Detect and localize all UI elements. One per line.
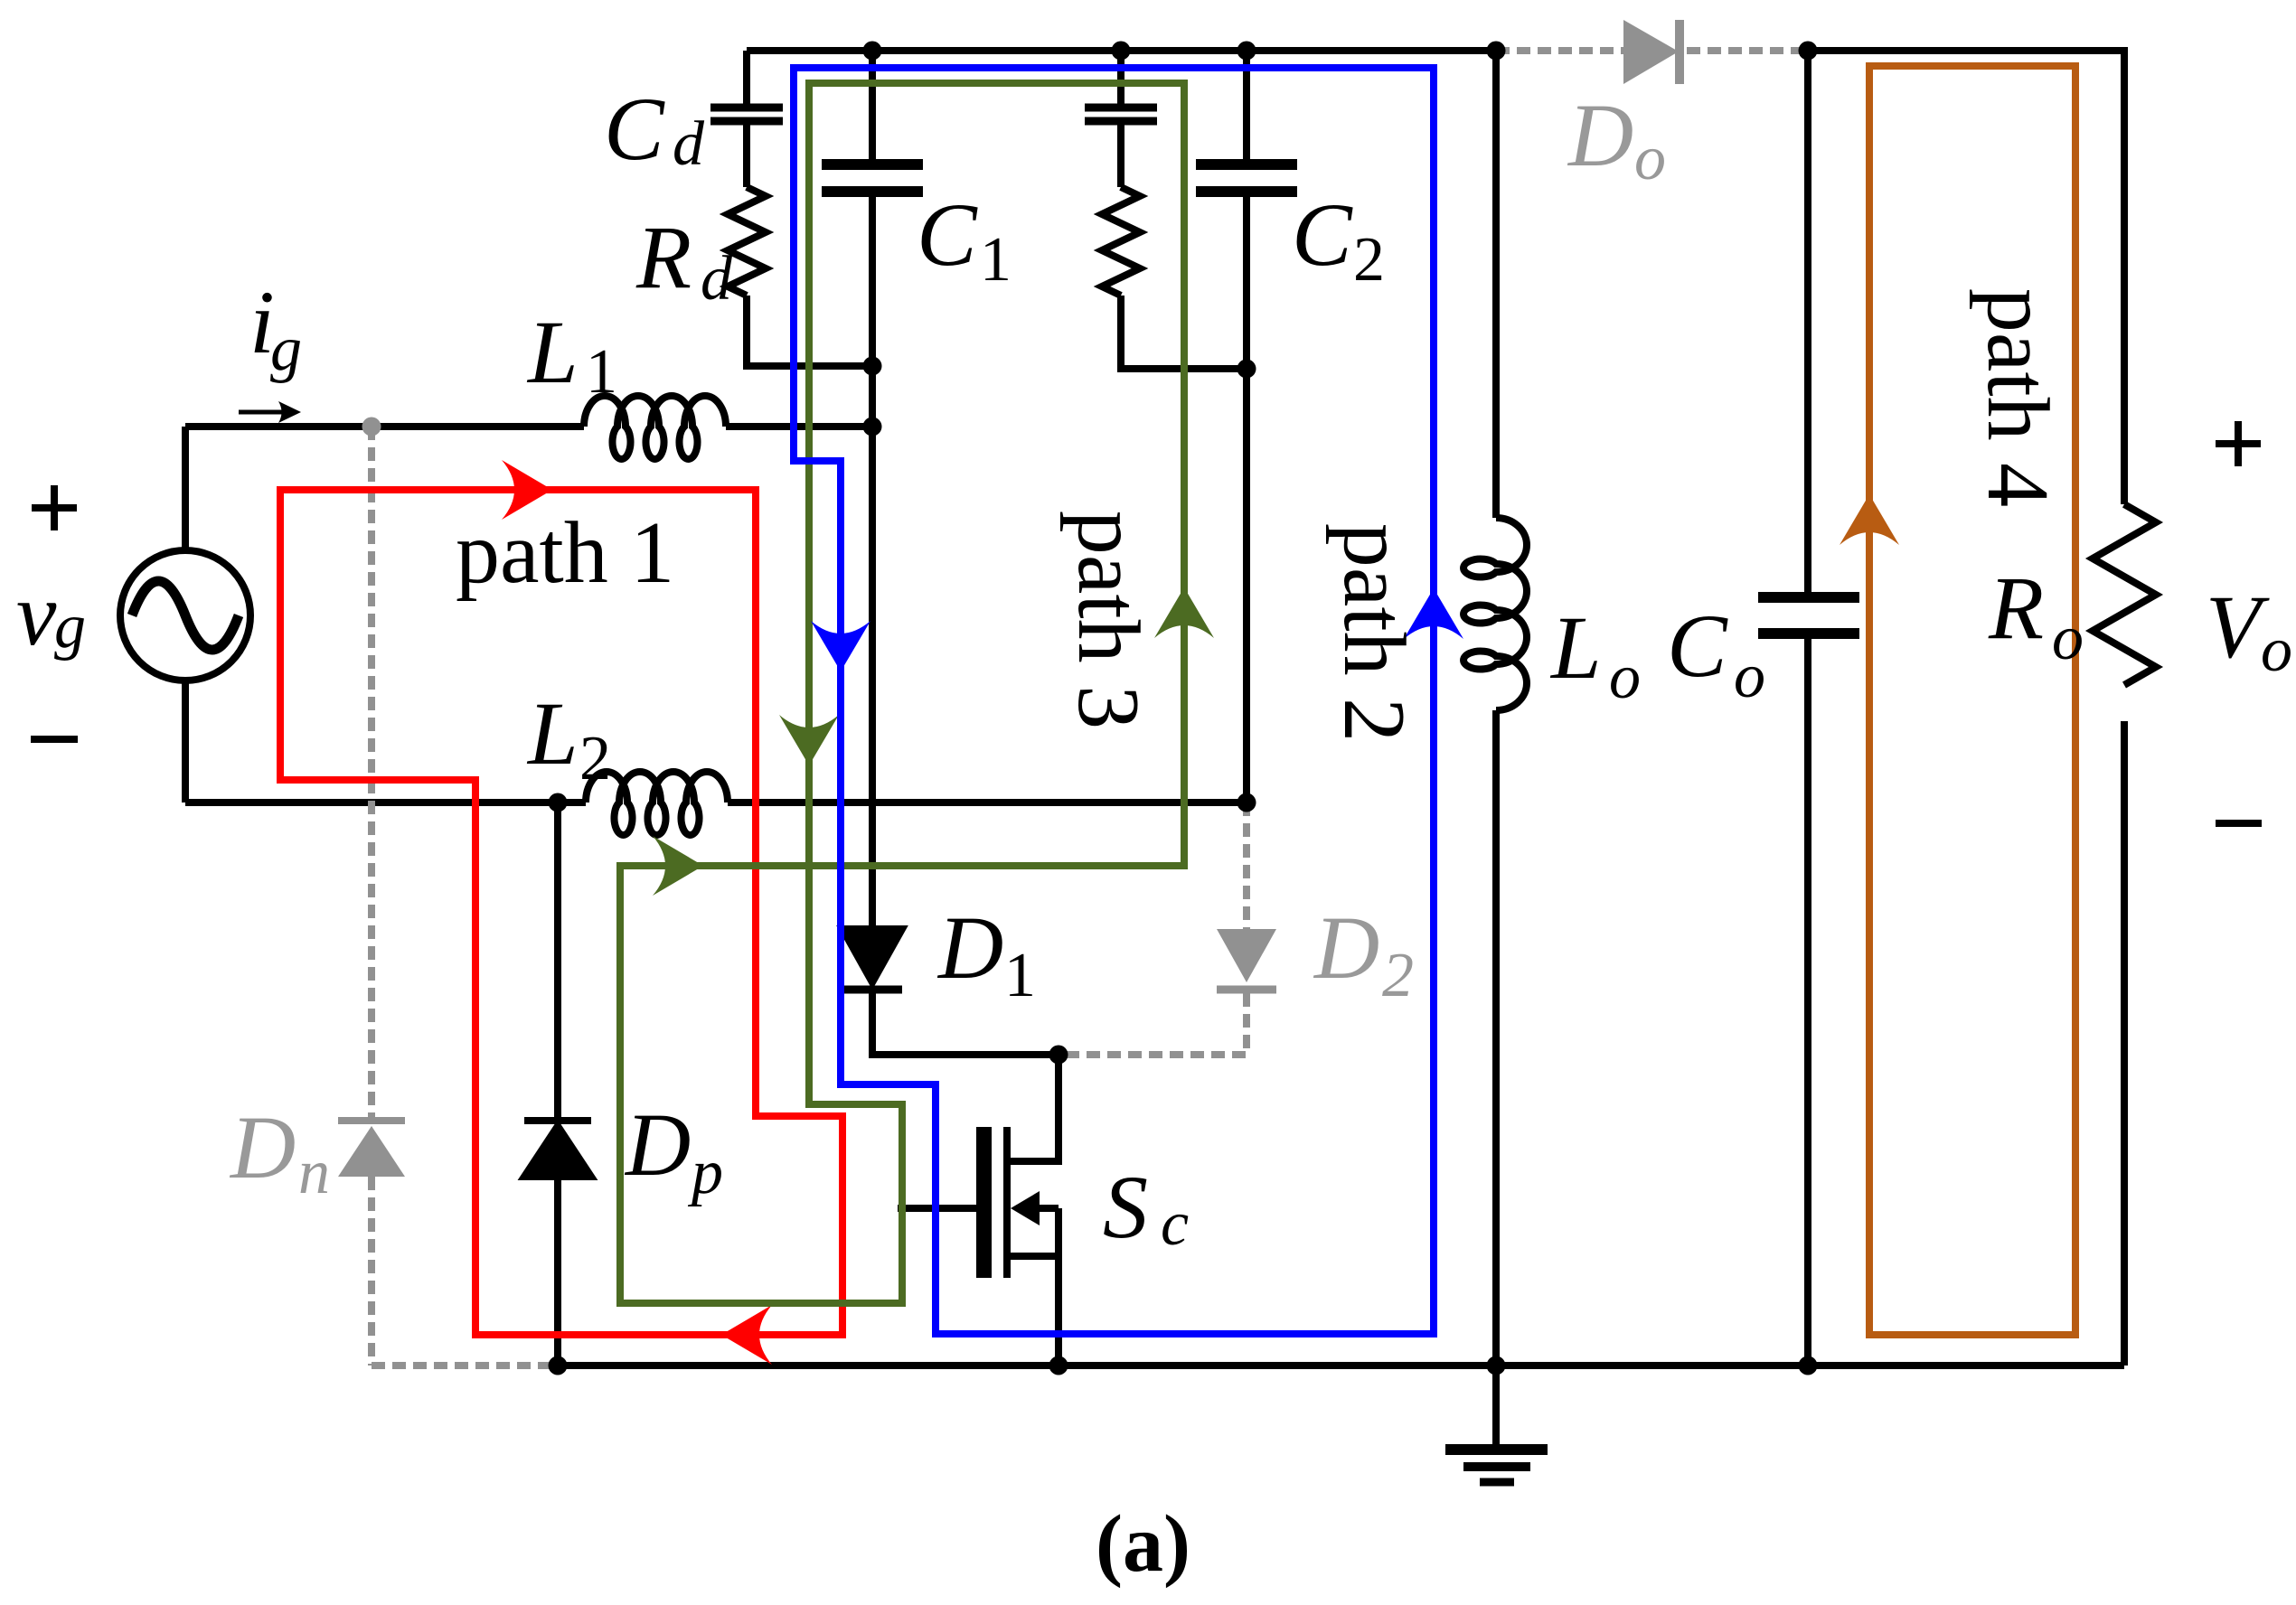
path 2 blue loop bbox=[794, 68, 1434, 1334]
svg-text:d: d bbox=[701, 244, 733, 314]
node top bus Co bbox=[1799, 42, 1818, 61]
label Co bbox=[1667, 596, 1765, 711]
path 4 orange loop bbox=[1869, 66, 2075, 1335]
transistor Q1 Sc source lead bbox=[1011, 1253, 1059, 1260]
wire top bus bbox=[747, 47, 1496, 54]
label L2 bbox=[526, 683, 611, 793]
label D2 bbox=[1313, 897, 1414, 1010]
svg-text:D: D bbox=[624, 1094, 691, 1195]
svg-text:R: R bbox=[1988, 558, 2044, 658]
capacitor C2 bbox=[1196, 164, 1297, 192]
wire C1 top lead bbox=[869, 51, 876, 160]
wire Cd to Rd bbox=[743, 125, 750, 187]
label Do bbox=[1567, 85, 1666, 193]
label L1 bbox=[526, 302, 617, 407]
svg-text:1: 1 bbox=[586, 337, 617, 407]
source vg sine bbox=[132, 581, 239, 650]
node top bus C1 bbox=[863, 42, 882, 61]
svg-text:o: o bbox=[2052, 604, 2084, 673]
label ig bbox=[249, 272, 302, 384]
diode D1 bbox=[842, 929, 902, 990]
wire Sc gate stub bbox=[898, 1205, 976, 1212]
source vg circle bbox=[120, 550, 250, 680]
path 3 arrow up bbox=[1154, 587, 1214, 638]
svg-text:1: 1 bbox=[1004, 941, 1036, 1010]
svg-text:2: 2 bbox=[1353, 225, 1385, 295]
svg-text:D: D bbox=[1567, 85, 1633, 185]
transistor Q1 Sc gate bar bbox=[976, 1127, 992, 1278]
inductor Lo bbox=[1463, 518, 1527, 710]
wire Dn dashed upper bbox=[368, 427, 375, 1117]
path 3 arrow right bbox=[653, 836, 703, 896]
svg-text:path 3: path 3 bbox=[1059, 511, 1157, 729]
wire C2 top lead bbox=[1243, 51, 1250, 160]
label Rd bbox=[635, 207, 733, 314]
node top bus damping2 bbox=[1112, 42, 1131, 61]
label D1 bbox=[936, 897, 1036, 1010]
svg-text:L: L bbox=[526, 683, 579, 784]
path 2 arrow down bbox=[811, 621, 870, 671]
svg-text:v: v bbox=[16, 564, 57, 664]
path 1 arrow right bbox=[502, 460, 552, 520]
node L1 C1 bbox=[863, 418, 882, 436]
svg-text:o: o bbox=[1734, 642, 1765, 711]
node D1 Sc drain bbox=[1049, 1046, 1068, 1065]
svg-text:1: 1 bbox=[980, 225, 1012, 295]
node top bus Lo bbox=[1487, 42, 1506, 61]
label minus Vo bbox=[2216, 820, 2262, 827]
node L2 C2 D2 bbox=[1237, 793, 1256, 812]
node bottom bus Co bbox=[1799, 1356, 1818, 1375]
wire Dn dashed bottom horizontal bbox=[372, 1362, 558, 1369]
capacitor damping 2 bbox=[1085, 108, 1157, 121]
svg-text:2: 2 bbox=[1382, 941, 1414, 1010]
path 3 green loop bbox=[620, 83, 1184, 1303]
label C2 bbox=[1292, 184, 1385, 295]
wire Lo top lead bbox=[1492, 51, 1500, 518]
svg-text:D: D bbox=[1313, 897, 1379, 998]
svg-text:d: d bbox=[673, 109, 705, 179]
path 3 arrow down bbox=[779, 715, 839, 765]
node A Rd C1 bbox=[863, 357, 882, 376]
svg-text:C: C bbox=[917, 184, 978, 285]
wire L2 right bbox=[728, 799, 1247, 806]
capacitor Cd bbox=[710, 108, 783, 121]
svg-text:c: c bbox=[1161, 1189, 1189, 1259]
label ig arrow bbox=[239, 401, 301, 423]
node bottom bus Sc bbox=[1049, 1356, 1068, 1375]
resistor damping 2 bbox=[1102, 187, 1140, 296]
svg-text:o: o bbox=[1634, 124, 1666, 193]
node L2 Dp bbox=[549, 793, 568, 812]
transistor Q1 Sc body arrow bbox=[1011, 1191, 1059, 1225]
svg-text:g: g bbox=[54, 592, 86, 662]
wire Lo bottom lead bbox=[1492, 710, 1500, 1366]
label Dp bbox=[624, 1094, 723, 1207]
svg-text:path 4: path 4 bbox=[1969, 288, 2066, 507]
node bottom bus Dp bbox=[549, 1356, 568, 1375]
svg-text:C: C bbox=[1667, 596, 1728, 696]
wire Cd top lead bbox=[743, 51, 750, 104]
inductor L1 bbox=[584, 396, 726, 459]
wire L1 right bbox=[726, 423, 872, 430]
label minus vg bbox=[31, 736, 78, 743]
wire D2 dashed top bbox=[1243, 802, 1250, 929]
svg-text:D: D bbox=[229, 1097, 296, 1197]
svg-text:o: o bbox=[2261, 615, 2292, 685]
wire Sc drain lead bbox=[1011, 1055, 1059, 1161]
wire top bus right segment to Ro bbox=[1808, 51, 2124, 504]
svg-text:C: C bbox=[604, 79, 665, 179]
label Cd bbox=[604, 79, 705, 179]
label Vo bbox=[2206, 577, 2292, 685]
wire vg bottom lead bbox=[182, 680, 189, 802]
path 1 red loop bbox=[280, 490, 842, 1335]
transistor Q1 Sc channel bar bbox=[1003, 1127, 1011, 1278]
label plus vg bbox=[32, 485, 77, 530]
node damping2 C2 bbox=[1237, 360, 1256, 379]
wire Do dashed right bbox=[1687, 47, 1808, 54]
label plus Vo bbox=[2216, 421, 2261, 466]
wire Dp top lead bbox=[554, 802, 561, 1119]
wire damping 2 mid bbox=[1117, 125, 1124, 187]
wire Sc source to bottom bus bbox=[1055, 1208, 1062, 1366]
label Ro bbox=[1988, 558, 2084, 673]
wire Dp bottom lead bbox=[554, 1177, 561, 1366]
inductor L2 bbox=[586, 772, 728, 835]
node bottom bus ground bbox=[1487, 1356, 1506, 1375]
wire damping 2 bottom to C2 bbox=[1121, 296, 1247, 369]
path 1 arrow left bbox=[721, 1305, 772, 1365]
path 4 arrow up bbox=[1840, 494, 1899, 545]
wire bottom bus bbox=[558, 1362, 2124, 1369]
svg-text:(a): (a) bbox=[1096, 1499, 1190, 1589]
svg-text:p: p bbox=[687, 1138, 723, 1207]
svg-text:g: g bbox=[270, 314, 302, 384]
wire Co top lead bbox=[1804, 51, 1811, 592]
svg-text:L: L bbox=[526, 302, 579, 402]
resistor Ro bbox=[2093, 504, 2156, 685]
wire vg top lead bbox=[182, 427, 189, 550]
path 2 arrow up bbox=[1404, 588, 1463, 639]
svg-text:D: D bbox=[936, 897, 1003, 998]
node Dn L1 gray bbox=[362, 418, 381, 436]
svg-text:2: 2 bbox=[579, 724, 611, 793]
diode Dp bbox=[524, 1121, 591, 1177]
label Dn bbox=[229, 1097, 330, 1207]
svg-text:L: L bbox=[1549, 597, 1602, 698]
svg-text:path 1: path 1 bbox=[456, 504, 674, 602]
svg-text:n: n bbox=[298, 1138, 330, 1207]
capacitor Co bbox=[1758, 597, 1859, 634]
wire D2 dashed bottom bbox=[1059, 993, 1247, 1055]
label Sc bbox=[1103, 1157, 1189, 1259]
wire C2 bottom vertical bbox=[1243, 196, 1250, 802]
label C1 bbox=[917, 184, 1012, 295]
wire Do dashed left bbox=[1496, 47, 1623, 54]
wire C1 bottom vertical through node A and L1 node bbox=[869, 196, 876, 929]
wire Dn dashed lower bbox=[368, 1177, 375, 1366]
svg-text:S: S bbox=[1103, 1157, 1148, 1257]
wire Rd bottom to node A bbox=[747, 296, 872, 366]
label Lo bbox=[1549, 597, 1641, 712]
diode Do bbox=[1623, 20, 1684, 84]
wire Co bottom lead bbox=[1804, 639, 1811, 1366]
diode Dn bbox=[338, 1121, 405, 1177]
node top bus C2 bbox=[1237, 42, 1256, 61]
wire L2 left bbox=[185, 799, 586, 806]
svg-text:R: R bbox=[635, 207, 692, 307]
label vg bbox=[16, 564, 86, 664]
svg-text:path 2: path 2 bbox=[1325, 523, 1423, 742]
wire right edge below Ro bbox=[2121, 721, 2128, 1366]
diode D2 bbox=[1217, 929, 1276, 990]
ground bbox=[1445, 1366, 1548, 1482]
wire D1 cathode to Sc drain node bbox=[872, 993, 1059, 1055]
svg-text:C: C bbox=[1292, 184, 1353, 285]
capacitor C1 bbox=[822, 164, 923, 192]
svg-text:o: o bbox=[1609, 643, 1641, 712]
wire L1 left bbox=[185, 423, 584, 430]
resistor Rd bbox=[728, 187, 766, 296]
wire damping branch 2 top lead bbox=[1117, 51, 1124, 104]
